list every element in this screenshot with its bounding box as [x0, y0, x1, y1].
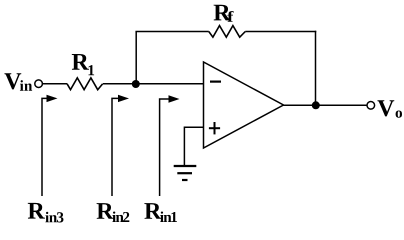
op-amp non-inverting input pin plus sign: [209, 122, 220, 134]
wire R1 to op-amp inverting input: [103, 83, 204, 85]
wire feedback top left: [135, 31, 208, 33]
wire input terminal to R1: [43, 83, 67, 85]
resistor R1: [67, 78, 103, 90]
arrow Rin1: [160, 95, 180, 196]
label Vin: [4, 73, 32, 90]
junction node output: [312, 101, 320, 109]
arrow Rin3: [42, 95, 58, 196]
terminal Vin: [35, 80, 43, 88]
label Rin2: [97, 203, 130, 222]
label Rf: [214, 5, 234, 22]
label R1: [72, 54, 94, 75]
label Vo: [377, 100, 402, 117]
terminal Vo: [367, 102, 375, 110]
wire feedback top right: [245, 31, 316, 33]
wire op-amp output to terminal: [284, 104, 367, 106]
op-amp inverting input pin minus sign: [210, 80, 221, 82]
label Rin3: [28, 203, 64, 223]
label Rin1: [144, 203, 177, 222]
junction node A at inverting input: [132, 80, 140, 88]
wire non-inverting input to ground: [184, 127, 203, 165]
wire feedback right vertical: [315, 31, 317, 106]
arrow Rin2: [112, 95, 129, 196]
op-amp U1: [204, 62, 284, 148]
wire feedback left vertical: [135, 32, 137, 85]
ground: [174, 166, 197, 180]
resistor Rf: [209, 26, 246, 38]
